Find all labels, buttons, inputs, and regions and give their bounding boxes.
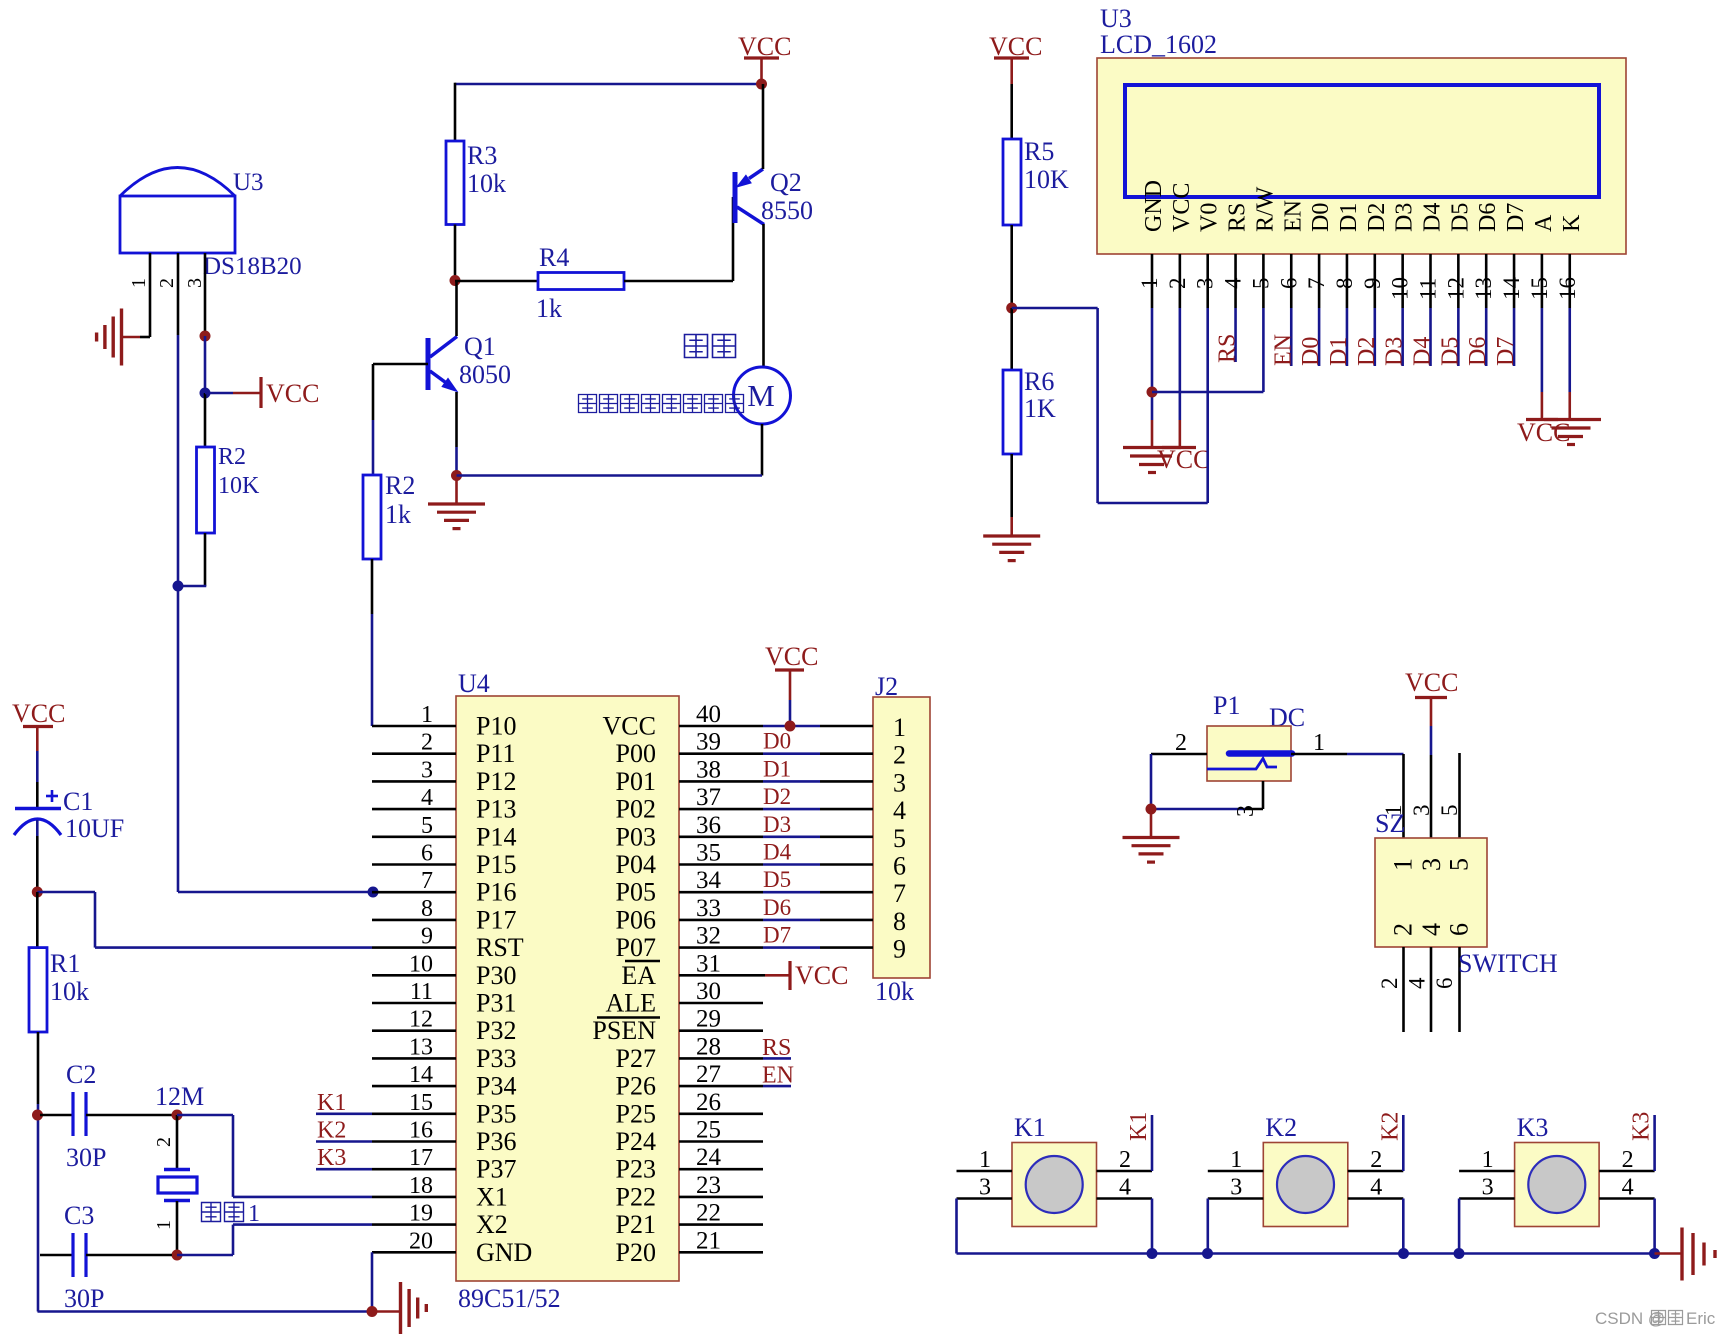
wire VCC to R5: [1010, 84, 1013, 139]
wire R2 bottom to data net: [204, 533, 207, 586]
U4 pin 18 stub (X1): [372, 1196, 456, 1199]
svg-text:1: 1: [1482, 1147, 1494, 1173]
svg-text:5: 5: [1445, 858, 1474, 871]
ground (LCD pin1): [1123, 446, 1181, 449]
wire R4 to Q2 base: [624, 280, 733, 283]
svg-text:31: 31: [696, 950, 721, 977]
svg-text:P01: P01: [616, 767, 656, 796]
junction node P1 ground: [1146, 804, 1157, 815]
net label EN (U4 P26): [763, 1085, 791, 1088]
U4 pin 8 stub (P17): [372, 919, 456, 922]
U4 pin 31 stub (EA): [679, 974, 763, 977]
U4 pin 35 stub (P04): [679, 863, 763, 866]
svg-text:7: 7: [893, 879, 906, 908]
button K2 pin 4 stub: [1348, 1197, 1404, 1200]
svg-text:2: 2: [1622, 1147, 1634, 1173]
svg-text:29: 29: [696, 1006, 721, 1033]
SZ pin5 stub top: [1458, 753, 1461, 838]
svg-text:8550: 8550: [761, 196, 813, 225]
junction node VCC rail: [756, 79, 767, 90]
svg-text:R3: R3: [467, 141, 497, 170]
svg-text:3: 3: [421, 757, 433, 783]
svg-text:R5: R5: [1024, 137, 1054, 166]
junction node R3/R4/Q1 collector: [450, 275, 461, 286]
net label RS (U4 P27): [763, 1057, 791, 1060]
J2 pin 2 wire: [763, 752, 820, 755]
U4 pin 36 stub (P03): [679, 835, 763, 838]
resistor R5 10K: [1003, 139, 1021, 225]
capacitor C2 30P: [40, 1114, 73, 1117]
SZ pin6 stub bottom: [1458, 947, 1461, 1032]
svg-text:SWITCH: SWITCH: [1458, 949, 1558, 978]
DC jack center pin: [1229, 750, 1292, 757]
svg-text:D3: D3: [763, 812, 791, 837]
svg-text:10K: 10K: [218, 473, 260, 499]
DC jack pin 1 wire: [1291, 753, 1347, 756]
wire rail to R3: [454, 83, 457, 141]
svg-text:10k: 10k: [875, 977, 914, 1006]
U4 pin 14 stub (P34): [372, 1085, 456, 1088]
wire crystal pin2 to X1: [177, 1114, 233, 1117]
wire K3 pin3 to ground rail: [1458, 1199, 1461, 1254]
svg-text:K2: K2: [1265, 1113, 1297, 1142]
svg-text:P15: P15: [476, 850, 516, 879]
U4 pin 3 stub (P12): [372, 780, 456, 783]
wire node to R4: [455, 280, 538, 283]
svg-text:18: 18: [409, 1173, 433, 1199]
EA overline: [625, 960, 660, 963]
wire motor return rail: [761, 424, 764, 476]
svg-text:10K: 10K: [1024, 165, 1069, 194]
wire R2 1k to U4 P10: [371, 559, 374, 614]
svg-text:A: A: [1531, 214, 1557, 232]
wire P1 pin2 to ground: [1150, 754, 1153, 809]
svg-text:D0: D0: [1308, 203, 1334, 232]
svg-text:P26: P26: [616, 1072, 656, 1101]
SZ pin2 stub bottom: [1402, 947, 1405, 1032]
svg-text:P35: P35: [476, 1099, 516, 1128]
LCD pin 16 stub: [1568, 254, 1571, 308]
wire V0 net divider to LCD pin3: [1012, 307, 1098, 310]
U4 pin 25 stub (P24): [679, 1140, 763, 1143]
LCD module U3 LCD_1602 body: [1097, 58, 1626, 254]
svg-text:P16: P16: [476, 878, 516, 907]
svg-text:VCC: VCC: [1517, 418, 1570, 447]
svg-text:D0: D0: [1298, 337, 1324, 366]
svg-text:2: 2: [1370, 1147, 1382, 1173]
svg-text:DS18B20: DS18B20: [203, 253, 302, 280]
svg-text:1: 1: [1137, 278, 1162, 290]
J2 pin 4 wire: [763, 808, 820, 811]
svg-text:VCC: VCC: [1169, 183, 1195, 232]
svg-text:3: 3: [1409, 805, 1434, 817]
wire RST node to U4 RST: [37, 891, 95, 894]
net wire K3 to U4: [1653, 1115, 1656, 1171]
push button K2 body: [1263, 1143, 1348, 1227]
svg-text:3: 3: [1233, 805, 1259, 817]
junction node V0 divider: [1006, 303, 1017, 314]
junction node GND/RW: [1147, 387, 1158, 398]
U4 pin 10 stub (P30): [372, 974, 456, 977]
svg-text:P04: P04: [616, 850, 656, 879]
svg-text:Q1: Q1: [464, 332, 496, 361]
svg-text:12: 12: [1443, 277, 1468, 300]
svg-text:R2: R2: [385, 471, 415, 500]
svg-text:1: 1: [979, 1147, 991, 1173]
LCD pin 2 stub: [1179, 254, 1182, 308]
svg-text:12M: 12M: [155, 1082, 204, 1111]
U4 pin 11 stub (P31): [372, 1002, 456, 1005]
svg-text:37: 37: [696, 784, 721, 811]
svg-text:30: 30: [696, 978, 721, 1005]
svg-text:14: 14: [409, 1062, 433, 1088]
svg-text:4: 4: [1221, 277, 1246, 289]
ground (sensor pin 1): [120, 309, 123, 366]
svg-text:P03: P03: [616, 822, 656, 851]
LCD pin8 D1 wire: [1346, 308, 1349, 366]
svg-text:VCC: VCC: [266, 379, 319, 408]
svg-text:U3: U3: [233, 169, 264, 196]
U4 pin 37 stub (P02): [679, 808, 763, 811]
svg-text:VCC: VCC: [795, 961, 848, 990]
svg-text:K1: K1: [1014, 1113, 1046, 1142]
ground (P1): [1150, 809, 1153, 837]
svg-text:7: 7: [1304, 278, 1329, 290]
svg-text:P00: P00: [616, 739, 656, 768]
svg-text:23: 23: [696, 1172, 721, 1199]
LCD pin1 GND wire: [1151, 308, 1154, 420]
wire K1 pin4 to ground rail: [1151, 1199, 1154, 1254]
svg-text:D2: D2: [1364, 203, 1390, 232]
svg-text:VCC: VCC: [1157, 445, 1210, 474]
U4 pin 23 stub (P22): [679, 1196, 763, 1199]
svg-text:8: 8: [1332, 278, 1357, 290]
svg-text:3: 3: [1417, 858, 1446, 871]
svg-text:2: 2: [421, 730, 433, 756]
svg-text:35: 35: [696, 840, 721, 867]
transistor Q2 8550 PNP: [733, 172, 738, 223]
MCU U4 89C51/52 body: [456, 696, 679, 1281]
svg-text:D3: D3: [1392, 203, 1418, 232]
svg-text:4: 4: [1417, 923, 1446, 936]
net label K2 (U4 P36): [316, 1140, 372, 1143]
junction node data/R2: [173, 581, 184, 592]
svg-text:D6: D6: [763, 895, 791, 920]
svg-text:D4: D4: [1420, 203, 1446, 232]
svg-text:34: 34: [696, 867, 722, 894]
svg-text:K3: K3: [1517, 1113, 1549, 1142]
svg-text:M: M: [747, 378, 775, 413]
svg-text:3: 3: [184, 278, 206, 288]
svg-text:3: 3: [979, 1175, 991, 1201]
DC power jack P1 body: [1207, 726, 1291, 781]
svg-text:VCC: VCC: [1405, 668, 1458, 697]
junction node K3 pin3: [1454, 1248, 1465, 1259]
push button K3 body: [1515, 1143, 1600, 1227]
svg-text:K2: K2: [1377, 1112, 1403, 1141]
LCD pin9 D2 wire: [1374, 308, 1377, 366]
svg-text:C1: C1: [63, 787, 93, 816]
svg-text:K3: K3: [317, 1145, 346, 1171]
wire K3 pin4 to ground rail: [1653, 1199, 1656, 1254]
svg-text:P13: P13: [476, 795, 516, 824]
U4 pin 27 stub (P26): [679, 1085, 763, 1088]
svg-text:P37: P37: [476, 1155, 516, 1184]
svg-text:C3: C3: [64, 1201, 94, 1230]
wire U4 GND to rail: [371, 1252, 374, 1311]
svg-text:1: 1: [128, 278, 150, 288]
svg-text:D2: D2: [763, 784, 791, 809]
U4 pin 30 stub (ALE): [679, 1002, 763, 1005]
junction node K2 pin4: [1398, 1248, 1409, 1259]
svg-text:X2: X2: [476, 1210, 508, 1239]
U4 pin 33 stub (P06): [679, 919, 763, 922]
wire DC pin1 to SZ pin1: [1402, 754, 1405, 838]
LCD pin 12 stub: [1457, 254, 1460, 308]
push button K1 body: [1012, 1143, 1097, 1227]
junction node on pin 3: [200, 331, 211, 342]
LCD pin 11 stub: [1429, 254, 1432, 308]
note black negative red positive (Chinese): [579, 395, 597, 413]
U4 pin 39 stub (P00): [679, 752, 763, 755]
wire data net to P16: [178, 891, 373, 894]
ground (LCD pin16): [1544, 418, 1601, 421]
svg-text:1k: 1k: [385, 500, 411, 529]
svg-text:P10: P10: [476, 712, 516, 741]
svg-text:6: 6: [1432, 978, 1457, 990]
U4 pin 40 stub (VCC): [679, 725, 763, 728]
wire Q2 collector to motor: [762, 224, 765, 367]
junction node at P16 pin: [368, 887, 379, 898]
resistor R3 10k: [446, 141, 464, 225]
U4 pin 29 stub (PSEN): [679, 1029, 763, 1032]
svg-text:P05: P05: [616, 878, 656, 907]
svg-text:P14: P14: [476, 822, 516, 851]
capacitor C3 30P: [40, 1254, 73, 1257]
wire ground rail bottom: [38, 1310, 373, 1313]
LCD pin13 D6 wire: [1485, 308, 1488, 366]
svg-text:P24: P24: [616, 1127, 656, 1156]
svg-text:P22: P22: [616, 1182, 656, 1211]
svg-text:19: 19: [409, 1201, 433, 1227]
wire R6 to ground: [1010, 454, 1013, 517]
LCD pin 3 stub: [1206, 254, 1209, 308]
svg-text:P1: P1: [1213, 691, 1240, 720]
svg-text:D1: D1: [763, 756, 791, 781]
J2 pin 9 wire: [763, 946, 820, 949]
svg-text:D0: D0: [763, 729, 791, 754]
svg-text:4: 4: [1119, 1175, 1131, 1201]
temperature sensor U3 DS18B20 body: [120, 168, 235, 197]
wire node to R1: [36, 892, 39, 948]
svg-text:1: 1: [248, 1201, 260, 1227]
sensor pin 1 wire: [149, 253, 152, 337]
svg-text:CSDN @: CSDN @: [1595, 1309, 1665, 1328]
svg-text:4: 4: [421, 785, 433, 811]
svg-text:D4: D4: [763, 840, 792, 865]
label fan (Chinese): [685, 335, 708, 358]
wire K2 pin4 to ground rail: [1402, 1199, 1405, 1254]
LCD pin 4 stub: [1234, 254, 1237, 308]
svg-text:10UF: 10UF: [65, 814, 124, 843]
junction node K2 pin3: [1202, 1248, 1213, 1259]
svg-text:1: 1: [893, 713, 906, 742]
DC jack pin 2 wire: [1151, 753, 1207, 756]
svg-text:13: 13: [409, 1034, 433, 1060]
junction node C2/XTAL: [32, 1110, 43, 1121]
J2 pin 5 wire: [763, 835, 820, 838]
svg-text:1: 1: [1389, 858, 1418, 871]
U4 pin 17 stub (P37): [372, 1168, 456, 1171]
VCC tee (LCD pin2): [1162, 446, 1196, 449]
svg-text:P33: P33: [476, 1044, 516, 1073]
U4 pin 2 stub (P11): [372, 752, 456, 755]
DIP switch SZ body: [1375, 838, 1487, 947]
U4 pin 9 stub (RST): [372, 946, 456, 949]
svg-text:8: 8: [421, 896, 433, 922]
header J2 body: [873, 697, 930, 978]
U4 pin 24 stub (P23): [679, 1168, 763, 1171]
U4 pin 7 stub (P16): [372, 891, 456, 894]
svg-text:D6: D6: [1475, 203, 1501, 232]
U4 pin 16 stub (P36): [372, 1140, 456, 1143]
U4 pin 6 stub (P15): [372, 863, 456, 866]
DC jack pin 3 wire: [1262, 781, 1265, 809]
wire K2 pin3 to ground rail: [1207, 1199, 1210, 1254]
LCD pin 6 stub: [1290, 254, 1293, 308]
svg-text:P11: P11: [476, 739, 516, 768]
wire R1 to crystal rail: [37, 1032, 40, 1104]
svg-text:2: 2: [1389, 923, 1418, 936]
LCD pin16 K wire to ground: [1568, 308, 1571, 392]
svg-text:36: 36: [696, 812, 721, 839]
U4 pin 15 stub (P35): [372, 1113, 456, 1116]
LCD pin7 D0 wire: [1318, 308, 1321, 366]
svg-text:9: 9: [1360, 278, 1385, 290]
LCD pin 5 stub: [1262, 254, 1265, 308]
junction node crystal pin1: [172, 1250, 183, 1261]
svg-text:P12: P12: [476, 767, 516, 796]
svg-text:SZ: SZ: [1375, 809, 1405, 838]
svg-text:GND: GND: [476, 1238, 532, 1267]
svg-text:R/W: R/W: [1252, 186, 1278, 232]
svg-text:P32: P32: [476, 1016, 516, 1045]
wire K1 pin3 to ground rail: [955, 1199, 958, 1254]
U4 pin 4 stub (P13): [372, 808, 456, 811]
svg-text:Eric: Eric: [1686, 1309, 1716, 1328]
wire Q2 emitter to VCC rail: [762, 84, 765, 169]
junction node pin3/VCC tap: [200, 388, 211, 399]
svg-text:U3: U3: [1100, 4, 1132, 33]
U4 pin 28 stub (P27): [679, 1057, 763, 1060]
svg-text:3: 3: [893, 768, 906, 797]
LCD pin15 A wire to VCC: [1541, 308, 1544, 392]
svg-text:R4: R4: [539, 243, 569, 272]
svg-text:P23: P23: [616, 1155, 656, 1184]
svg-text:6: 6: [893, 852, 906, 881]
svg-text:20: 20: [409, 1228, 433, 1254]
svg-text:38: 38: [696, 756, 721, 783]
svg-text:ALE: ALE: [605, 989, 656, 1018]
svg-text:EN: EN: [1280, 200, 1306, 232]
wire R3 to node: [454, 225, 457, 281]
ground (R6): [983, 534, 1040, 537]
crystal Y1 12M: [176, 1115, 179, 1169]
svg-text:RST: RST: [476, 933, 524, 962]
LCD pin 10 stub: [1401, 254, 1404, 308]
J2 pin 7 wire: [763, 891, 820, 894]
ground (button rail): [1655, 1252, 1682, 1255]
VCC symbol (sensor pull-up): [205, 392, 233, 395]
button K1 pin 2 stub: [1097, 1170, 1153, 1173]
svg-text:32: 32: [696, 923, 721, 950]
ground rail wire (buttons): [957, 1252, 1655, 1255]
motor M (fan): [734, 367, 791, 424]
J2 pin 8 wire: [763, 919, 820, 922]
svg-text:P36: P36: [476, 1127, 516, 1156]
svg-text:3: 3: [1230, 1175, 1242, 1201]
resistor R4 1k: [538, 273, 624, 290]
svg-text:12: 12: [409, 1007, 433, 1033]
LCD pin6 EN wire: [1290, 308, 1293, 366]
svg-text:D5: D5: [1437, 337, 1463, 366]
svg-text:VCC: VCC: [765, 642, 818, 671]
svg-text:30P: 30P: [64, 1284, 104, 1313]
resistor R1 10k: [29, 948, 47, 1032]
U4 pin 34 stub (P05): [679, 891, 763, 894]
svg-text:RS: RS: [1225, 203, 1251, 232]
net wire K2 to U4: [1402, 1115, 1405, 1171]
button K1 pin 1 stub: [957, 1170, 1013, 1173]
svg-text:VCC: VCC: [12, 699, 65, 728]
svg-text:P27: P27: [616, 1044, 656, 1073]
U4 pin 12 stub (P32): [372, 1029, 456, 1032]
svg-text:D2: D2: [1354, 337, 1380, 366]
net wire K1 to U4: [1151, 1115, 1154, 1171]
svg-text:D7: D7: [763, 923, 791, 948]
svg-text:EN: EN: [1270, 334, 1296, 366]
svg-text:2: 2: [893, 741, 906, 770]
svg-text:5: 5: [1248, 278, 1273, 290]
top rail wire VCC to R3/Q2: [455, 83, 762, 86]
DC jack switch contact: [1207, 759, 1277, 770]
svg-text:4: 4: [1405, 977, 1430, 989]
wire crystal pin1 to X2: [177, 1254, 233, 1257]
svg-text:P30: P30: [476, 961, 516, 990]
button K3 pin 1 stub: [1459, 1170, 1515, 1173]
resistor R2 10K (pull-up): [197, 447, 215, 533]
svg-text:P06: P06: [616, 905, 656, 934]
svg-text:P07: P07: [616, 933, 656, 962]
svg-text:D6: D6: [1465, 337, 1491, 366]
svg-text:P34: P34: [476, 1072, 516, 1101]
svg-text:R6: R6: [1024, 367, 1054, 396]
button K3 pin 4 stub: [1599, 1197, 1655, 1200]
LCD pin4 RS wire: [1234, 308, 1237, 362]
svg-text:K1: K1: [317, 1090, 346, 1116]
svg-text:33: 33: [696, 895, 721, 922]
junction node K1 pin4: [1147, 1248, 1158, 1259]
svg-text:15: 15: [409, 1090, 433, 1116]
svg-text:8050: 8050: [459, 360, 511, 389]
svg-text:27: 27: [696, 1061, 721, 1088]
svg-text:P20: P20: [616, 1238, 656, 1267]
svg-text:D1: D1: [1326, 337, 1352, 366]
LCD pin 9 stub: [1374, 254, 1377, 308]
svg-text:C2: C2: [66, 1060, 96, 1089]
svg-text:1: 1: [1313, 730, 1325, 756]
svg-text:K1: K1: [1126, 1112, 1152, 1141]
